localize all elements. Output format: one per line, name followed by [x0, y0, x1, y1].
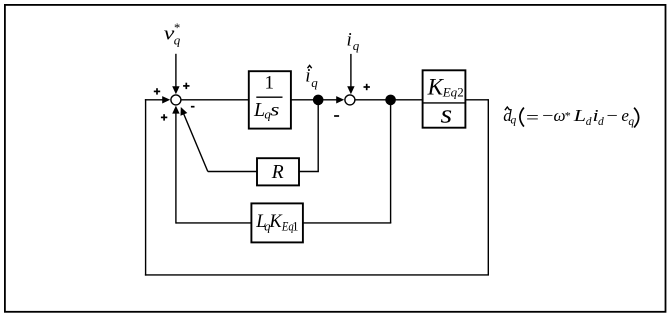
wire G2 output to right corner	[465, 99, 488, 101]
wire outer loop left vertical	[145, 99, 147, 276]
svg-text:s: s	[441, 100, 453, 129]
wire vq* input	[175, 54, 177, 90]
summing junction S1	[171, 95, 181, 105]
arrowhead into S1 bottom	[172, 106, 179, 114]
arrowhead into summing junction S2 top	[347, 86, 354, 94]
block LqKEq1	[251, 203, 303, 242]
sign plus left-top of S1	[154, 88, 160, 94]
wire R output left	[208, 171, 257, 173]
block G1: 1/(Lq s)	[249, 71, 291, 128]
svg-text:*: *	[565, 109, 571, 123]
sign minus right of S1	[191, 106, 195, 108]
svg-text:−: −	[542, 106, 553, 125]
arrowhead diagonal into S1	[181, 107, 188, 116]
svg-text:1: 1	[265, 72, 275, 93]
svg-text:s: s	[270, 99, 279, 120]
wire into S1 left	[145, 99, 166, 101]
svg-text:=: =	[526, 109, 539, 128]
svg-text:q: q	[628, 116, 634, 128]
sign plus top-right of S1	[183, 83, 189, 89]
svg-text:2: 2	[457, 84, 464, 99]
node iq label	[347, 29, 360, 53]
svg-text:L: L	[573, 106, 586, 125]
node ihat_q label	[305, 65, 318, 90]
node output label dq_hat equation	[503, 106, 638, 128]
wire outer loop bottom horizontal	[145, 274, 489, 276]
wire G1 to S2	[291, 99, 340, 101]
block G2: KEq2/s	[423, 70, 466, 129]
svg-text:i: i	[305, 66, 310, 87]
node ihat_q junction dot	[313, 95, 324, 106]
svg-text:1: 1	[292, 220, 298, 234]
wire tap from node ihat_q down to R	[317, 100, 319, 172]
arrowhead into S2 left	[336, 96, 344, 103]
svg-text:q: q	[311, 75, 318, 90]
wire iq input	[350, 54, 352, 90]
wire S1 to block G1	[181, 99, 249, 101]
svg-text:d: d	[586, 116, 592, 128]
svg-text:d: d	[598, 116, 604, 128]
svg-text:q: q	[174, 33, 181, 48]
wire diagonal into S1	[182, 109, 208, 172]
svg-text:q: q	[353, 38, 360, 53]
block R	[257, 158, 299, 185]
wire S2 to block G2	[355, 99, 422, 101]
wire LqKEq1 output left	[176, 222, 252, 224]
sign plus bottom-left of S1	[161, 114, 167, 120]
node vq* label	[164, 21, 181, 48]
node N2 junction dot	[385, 95, 396, 106]
svg-text:−: −	[606, 106, 617, 125]
sign minus below-left of S2	[334, 115, 339, 117]
summing junction S2	[345, 95, 355, 105]
sign plus top-right of S2	[364, 84, 370, 90]
svg-text:R: R	[271, 162, 284, 183]
arrowhead into summing junction S1 top	[172, 86, 179, 94]
svg-text:q: q	[511, 115, 517, 127]
wire up into S1 bottom	[175, 110, 177, 224]
svg-text:i: i	[347, 29, 352, 50]
svg-text:L: L	[253, 99, 265, 121]
arrowhead into S1 left	[162, 96, 170, 103]
wire tap from node N2 down to LqKEq1	[390, 100, 392, 223]
svg-text:Eq: Eq	[442, 84, 458, 99]
wire outer loop right vertical	[487, 99, 489, 275]
